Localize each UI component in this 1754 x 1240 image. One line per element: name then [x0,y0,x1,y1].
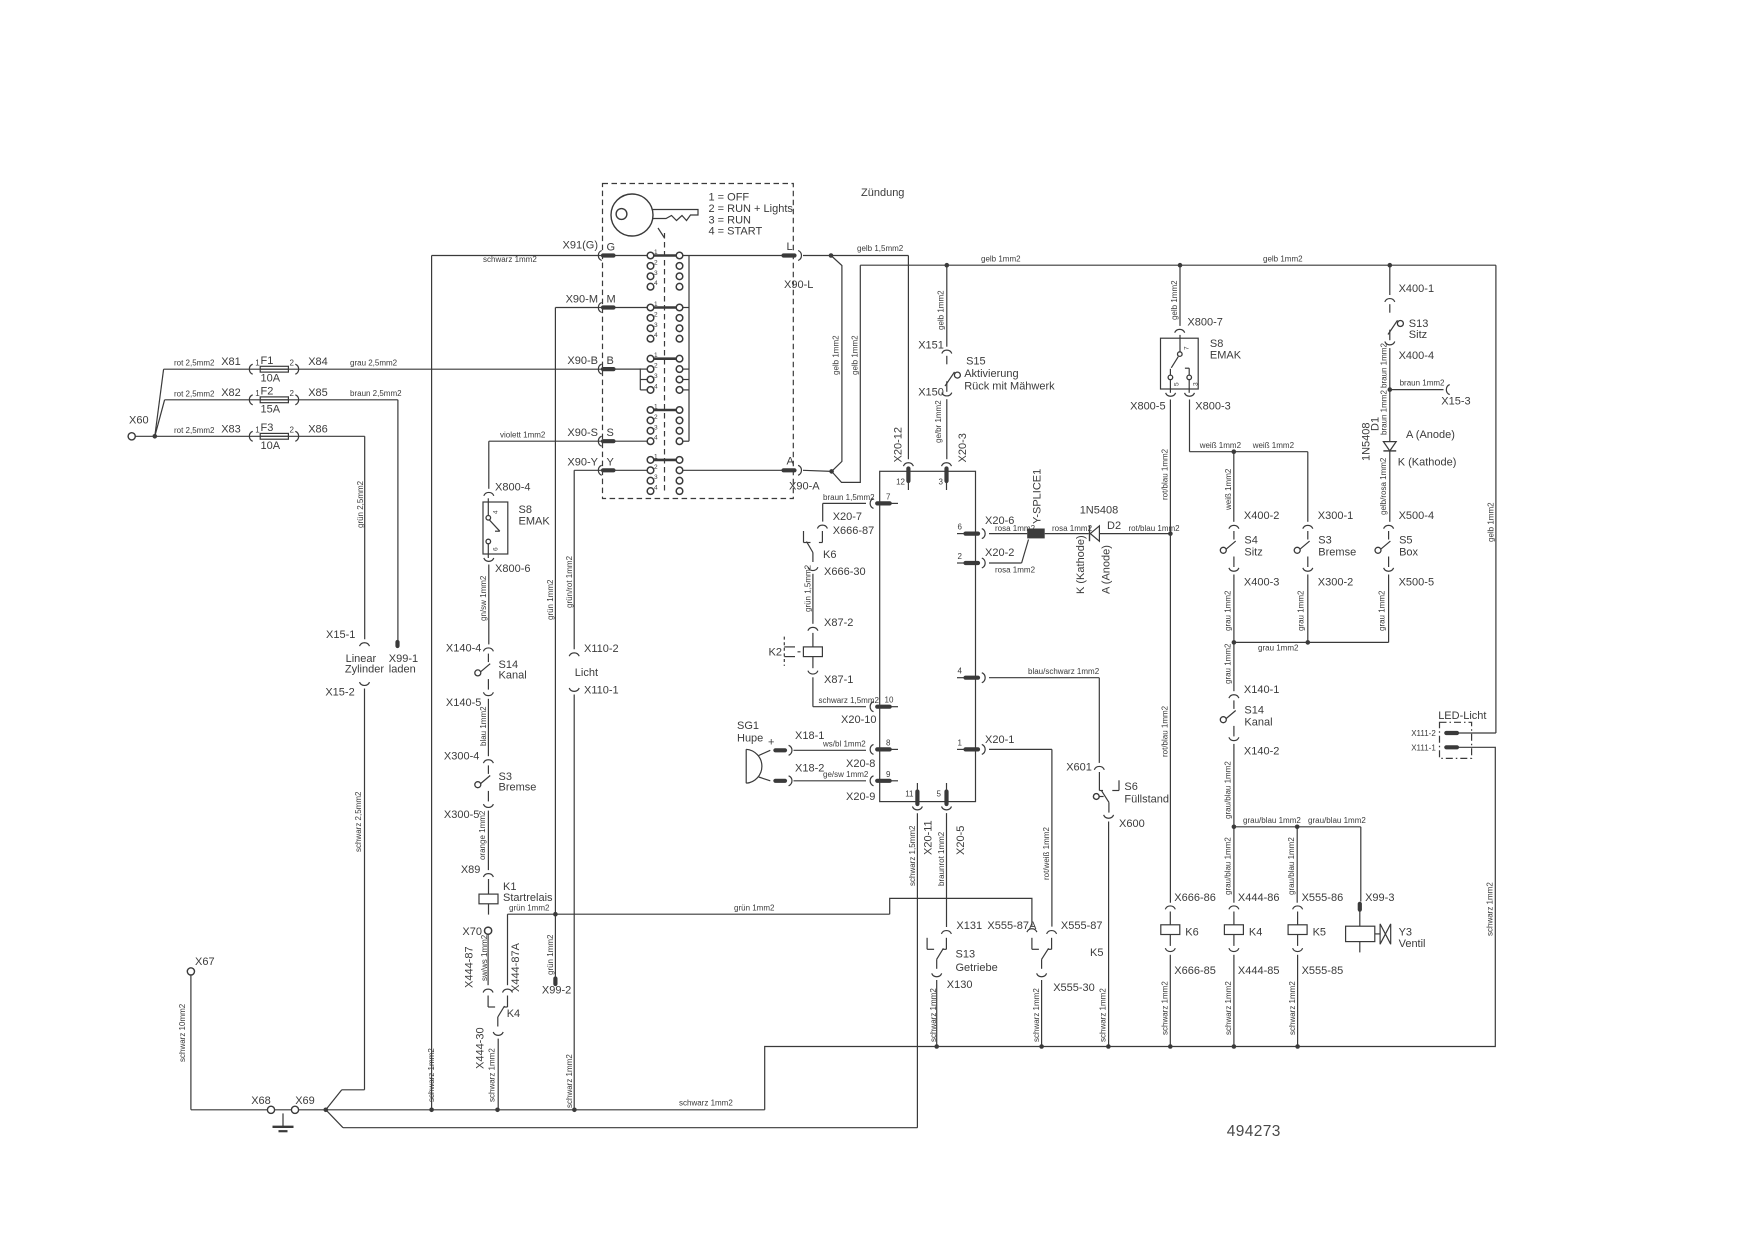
svg-text:K5: K5 [1313,927,1326,939]
svg-text:4: 4 [654,435,658,442]
svg-text:Zylinder: Zylinder [345,664,384,676]
svg-text:4: 4 [654,332,658,339]
svg-text:+: + [768,737,774,749]
svg-text:grau 2,5mm2: grau 2,5mm2 [350,359,398,368]
svg-text:X140-5: X140-5 [446,697,481,709]
svg-text:1N5408: 1N5408 [1080,505,1119,517]
svg-text:X60: X60 [129,415,149,427]
svg-text:A (Anode): A (Anode) [1101,545,1113,594]
svg-text:X20-2: X20-2 [985,547,1014,559]
svg-text:K6: K6 [823,549,836,561]
svg-text:X444-87A: X444-87A [510,942,522,992]
svg-text:grün 1mm2: grün 1mm2 [734,904,775,913]
svg-text:Aktivierung: Aktivierung [964,368,1018,380]
svg-text:10A: 10A [261,440,281,452]
svg-text:Ventil: Ventil [1399,938,1426,950]
svg-text:schwarz 1,5mm2: schwarz 1,5mm2 [819,696,880,705]
svg-text:Getriebe: Getriebe [956,962,998,974]
svg-text:X555-86: X555-86 [1302,892,1344,904]
svg-text:schwarz 1mm2: schwarz 1mm2 [1032,988,1041,1042]
svg-text:violett 1mm2: violett 1mm2 [500,431,546,440]
svg-text:grau/blau 1mm2: grau/blau 1mm2 [1224,837,1233,895]
svg-text:blau/schwarz 1mm2: blau/schwarz 1mm2 [1028,667,1100,676]
svg-text:X18-2: X18-2 [795,763,824,775]
svg-text:Hupe: Hupe [737,733,763,745]
svg-text:L: L [787,241,793,253]
svg-text:grün 1mm2: grün 1mm2 [509,904,550,913]
svg-text:5: 5 [937,790,942,799]
svg-text:braun 1mm2: braun 1mm2 [1379,343,1388,388]
svg-text:K4: K4 [507,1008,520,1020]
svg-text:7: 7 [1183,346,1190,350]
svg-text:S4: S4 [1244,535,1257,547]
svg-text:X110-2: X110-2 [584,643,619,655]
svg-text:Licht: Licht [575,667,598,679]
svg-text:grau 1mm2: grau 1mm2 [1224,643,1233,684]
svg-text:SG1: SG1 [737,720,759,732]
svg-text:4 = START: 4 = START [709,226,763,238]
svg-text:sw/ws 1mm2: sw/ws 1mm2 [480,934,489,981]
svg-text:S6: S6 [1124,781,1137,793]
svg-text:grün 1,5mm2: grün 1,5mm2 [803,564,812,612]
svg-text:ge/sw 1mm2: ge/sw 1mm2 [823,770,869,779]
svg-text:LED-Licht: LED-Licht [1438,710,1486,722]
svg-text:X555-87: X555-87 [1061,920,1103,932]
svg-text:braunrot 1mm2: braunrot 1mm2 [937,831,946,886]
svg-text:schwarz 1mm2: schwarz 1mm2 [679,1099,733,1108]
svg-text:X400-4: X400-4 [1399,350,1434,362]
svg-text:Kanal: Kanal [499,670,527,682]
svg-text:rot/weiß 1mm2: rot/weiß 1mm2 [1042,827,1051,880]
svg-text:ge/br 1mm2: ge/br 1mm2 [934,400,943,443]
svg-text:Rück mit Mähwerk: Rück mit Mähwerk [964,381,1055,393]
svg-text:12: 12 [896,478,905,487]
svg-text:EMAK: EMAK [1210,350,1242,362]
svg-text:Box: Box [1399,547,1418,559]
svg-text:rot 2,5mm2: rot 2,5mm2 [174,426,215,435]
svg-text:G: G [607,242,616,254]
svg-text:orange 1mm2: orange 1mm2 [478,810,487,860]
svg-text:X84: X84 [308,356,328,368]
svg-text:4: 4 [654,280,658,287]
svg-text:X151: X151 [918,340,944,352]
svg-text:X15-2: X15-2 [325,687,354,699]
svg-text:S: S [607,427,614,439]
svg-text:X86: X86 [308,423,328,435]
svg-text:X20-5: X20-5 [955,826,967,855]
svg-text:laden: laden [389,664,416,676]
svg-text:schwarz 1mm2: schwarz 1mm2 [1161,981,1170,1035]
svg-text:gelb 1mm2: gelb 1mm2 [832,335,841,375]
svg-text:schwarz 2,5mm2: schwarz 2,5mm2 [354,791,363,852]
svg-text:X140-4: X140-4 [446,643,481,655]
svg-text:X140-2: X140-2 [1244,746,1279,758]
svg-text:schwarz 1mm2: schwarz 1mm2 [1486,882,1495,936]
svg-text:X666-86: X666-86 [1174,892,1216,904]
svg-text:grau 1mm2: grau 1mm2 [1224,590,1233,631]
svg-text:gelb 1mm2: gelb 1mm2 [1170,280,1179,320]
svg-text:grau 1mm2: grau 1mm2 [1378,590,1387,631]
svg-text:X800-7: X800-7 [1187,317,1222,329]
svg-text:weiß 1mm2: weiß 1mm2 [1199,441,1242,450]
svg-text:K2: K2 [769,647,782,659]
svg-text:Bremse: Bremse [1318,547,1356,559]
svg-text:X90-S: X90-S [567,427,598,439]
svg-text:ws/bl 1mm2: ws/bl 1mm2 [822,740,866,749]
svg-text:X444-87: X444-87 [463,946,475,988]
svg-text:3: 3 [654,474,658,481]
svg-text:rot/blau 1mm2: rot/blau 1mm2 [1129,524,1181,533]
svg-text:3: 3 [654,270,658,277]
svg-text:gn/sw 1mm2: gn/sw 1mm2 [479,575,488,621]
svg-text:X85: X85 [308,387,328,399]
svg-text:X444-86: X444-86 [1238,892,1280,904]
svg-text:F1: F1 [261,355,274,367]
svg-text:X20-7: X20-7 [833,511,862,523]
svg-text:X150: X150 [918,387,944,399]
svg-text:grün 2,5mm2: grün 2,5mm2 [356,480,365,528]
svg-text:schwarz 1mm2: schwarz 1mm2 [1288,981,1297,1035]
svg-text:X90-B: X90-B [567,355,598,367]
svg-text:1: 1 [958,739,963,748]
svg-text:2: 2 [654,464,658,471]
svg-text:X444-85: X444-85 [1238,965,1280,977]
svg-text:schwarz 1mm2: schwarz 1mm2 [565,1054,574,1108]
svg-text:4: 4 [654,485,658,492]
svg-text:X400-1: X400-1 [1399,283,1434,295]
svg-text:Sitz: Sitz [1244,547,1262,559]
svg-text:X555-30: X555-30 [1053,982,1095,994]
svg-text:6: 6 [958,523,963,532]
svg-text:1N5408: 1N5408 [1360,422,1372,461]
svg-text:X69: X69 [295,1095,315,1107]
svg-text:schwarz 1mm2: schwarz 1mm2 [929,988,938,1042]
svg-text:X81: X81 [221,356,241,368]
svg-text:K6: K6 [1185,927,1198,939]
svg-text:X90-M: X90-M [566,294,598,306]
svg-text:6: 6 [493,547,500,551]
svg-text:schwarz 1mm2: schwarz 1mm2 [427,1048,436,1102]
svg-text:grau/blau 1mm2: grau/blau 1mm2 [1243,816,1301,825]
svg-text:X15-3: X15-3 [1441,396,1470,408]
svg-text:X111-1: X111-1 [1411,744,1436,753]
svg-text:rosa 1mm2: rosa 1mm2 [1052,524,1093,533]
svg-text:Sitz: Sitz [1409,329,1427,341]
svg-text:2: 2 [654,311,658,318]
svg-text:Y-SPLICE1: Y-SPLICE1 [1031,469,1043,524]
svg-text:X15-1: X15-1 [326,629,355,641]
svg-text:F2: F2 [261,386,274,398]
svg-text:X99-2: X99-2 [542,985,571,997]
svg-text:S8: S8 [519,504,532,516]
svg-text:3: 3 [939,478,944,487]
svg-text:X130: X130 [947,979,973,991]
svg-text:2: 2 [654,414,658,421]
svg-text:A (Anode): A (Anode) [1406,429,1455,441]
svg-text:3 = RUN: 3 = RUN [709,214,752,226]
svg-text:10: 10 [885,696,894,705]
svg-text:X555-85: X555-85 [1302,965,1344,977]
svg-text:11: 11 [905,790,914,799]
svg-text:5: 5 [1174,382,1181,386]
svg-text:10A: 10A [261,373,281,385]
svg-text:4: 4 [958,667,963,676]
svg-text:X83: X83 [221,423,241,435]
svg-text:X20-1: X20-1 [985,734,1014,746]
svg-text:X444-30: X444-30 [474,1027,486,1069]
svg-text:7: 7 [886,493,891,502]
svg-text:X666-85: X666-85 [1174,965,1216,977]
svg-text:grau 1mm2: grau 1mm2 [1258,644,1299,653]
svg-text:1: 1 [255,359,260,368]
svg-text:X90-A: X90-A [789,481,820,493]
svg-text:X20-9: X20-9 [846,791,875,803]
svg-text:B: B [607,355,614,367]
svg-text:rot/blau 1mm2: rot/blau 1mm2 [1161,705,1170,757]
svg-text:2 = RUN + Lights: 2 = RUN + Lights [709,203,794,215]
svg-text:3: 3 [654,322,658,329]
svg-text:Y3: Y3 [1399,927,1412,939]
svg-text:X800-5: X800-5 [1130,401,1165,413]
svg-text:D2: D2 [1107,520,1121,532]
svg-text:schwarz 1,5mm2: schwarz 1,5mm2 [908,825,917,886]
svg-text:gelb 1mm2: gelb 1mm2 [850,335,859,375]
svg-text:X18-1: X18-1 [795,730,824,742]
svg-text:X20-11: X20-11 [923,820,935,855]
svg-text:X555-87A: X555-87A [987,920,1037,932]
svg-text:2: 2 [654,259,658,266]
svg-text:K5: K5 [1090,947,1103,959]
svg-text:X68: X68 [251,1095,271,1107]
svg-text:9: 9 [886,770,891,779]
svg-text:X140-1: X140-1 [1244,684,1279,696]
svg-text:gelb 1mm2: gelb 1mm2 [1486,502,1495,542]
svg-text:X89: X89 [461,864,481,876]
svg-text:1: 1 [255,426,260,435]
svg-text:K (Kathode): K (Kathode) [1075,535,1087,594]
svg-text:X90-L: X90-L [784,279,813,291]
svg-text:X666-87: X666-87 [833,525,875,537]
svg-text:braun 1mm2: braun 1mm2 [1400,379,1445,388]
svg-text:X500-4: X500-4 [1399,510,1434,522]
svg-text:S8: S8 [1210,338,1223,350]
svg-text:Kanal: Kanal [1244,717,1272,729]
svg-text:X82: X82 [221,387,241,399]
svg-text:X110-1: X110-1 [584,685,619,697]
svg-text:schwarz 1mm2: schwarz 1mm2 [1224,981,1233,1035]
svg-text:15A: 15A [261,403,281,415]
svg-text:3: 3 [654,424,658,431]
svg-text:gelb 1mm2: gelb 1mm2 [1263,255,1303,264]
svg-text:X111-2: X111-2 [1411,729,1436,738]
svg-text:4: 4 [654,383,658,390]
svg-text:X666-30: X666-30 [824,566,866,578]
svg-text:X20-3: X20-3 [957,433,969,462]
svg-text:grün/rot 1mm2: grün/rot 1mm2 [565,555,574,608]
svg-text:grau 1mm2: grau 1mm2 [1297,590,1306,631]
svg-text:X20-12: X20-12 [893,427,905,462]
svg-text:X300-4: X300-4 [444,751,479,763]
svg-text:X800-3: X800-3 [1195,401,1230,413]
svg-text:S3: S3 [1318,535,1331,547]
svg-text:X67: X67 [195,956,215,968]
svg-text:gelb 1mm2: gelb 1mm2 [936,290,945,330]
svg-text:M: M [607,294,616,306]
svg-text:rot 2,5mm2: rot 2,5mm2 [174,359,215,368]
svg-text:rosa 1mm2: rosa 1mm2 [995,566,1036,575]
svg-text:X800-6: X800-6 [495,563,530,575]
svg-text:2: 2 [290,359,295,368]
svg-text:Bremse: Bremse [499,782,537,794]
svg-text:weiß 1mm2: weiß 1mm2 [1224,468,1233,511]
svg-text:gelb/rosa 1mm2: gelb/rosa 1mm2 [1379,457,1388,515]
svg-text:X300-1: X300-1 [1318,510,1353,522]
svg-text:K4: K4 [1249,927,1262,939]
svg-text:X87-2: X87-2 [824,617,853,629]
svg-text:X300-2: X300-2 [1318,577,1353,589]
svg-text:grün 1mm2: grün 1mm2 [546,579,555,620]
svg-text:S5: S5 [1399,535,1412,547]
svg-text:gelb 1mm2: gelb 1mm2 [981,255,1021,264]
svg-text:X90-Y: X90-Y [567,457,598,469]
svg-text:X20-8: X20-8 [846,758,875,770]
svg-text:schwarz 10mm2: schwarz 10mm2 [178,1003,187,1062]
svg-text:Füllstand: Füllstand [1124,794,1169,806]
svg-text:X800-4: X800-4 [495,482,530,494]
svg-text:X400-2: X400-2 [1244,510,1279,522]
svg-text:blau 1mm2: blau 1mm2 [479,706,488,746]
svg-text:X20-10: X20-10 [841,714,876,726]
svg-text:2: 2 [290,426,295,435]
svg-text:X400-3: X400-3 [1244,577,1279,589]
svg-text:8: 8 [886,739,891,748]
svg-text:X600: X600 [1119,818,1145,830]
svg-text:grau/blau 1mm2: grau/blau 1mm2 [1308,816,1366,825]
svg-text:2: 2 [958,552,963,561]
svg-text:494273: 494273 [1227,1123,1281,1140]
svg-text:gelb 1,5mm2: gelb 1,5mm2 [857,244,904,253]
svg-text:braun 1,5mm2: braun 1,5mm2 [823,493,875,502]
svg-text:weiß 1mm2: weiß 1mm2 [1252,441,1295,450]
svg-text:rot 2,5mm2: rot 2,5mm2 [174,389,215,398]
svg-text:schwarz 1mm2: schwarz 1mm2 [487,1048,496,1102]
svg-text:3: 3 [1192,382,1199,386]
svg-text:grau/blau 1mm2: grau/blau 1mm2 [1287,837,1296,895]
svg-text:braun 2,5mm2: braun 2,5mm2 [350,389,402,398]
svg-text:A: A [787,456,795,468]
svg-text:grau/blau 1mm2: grau/blau 1mm2 [1224,761,1233,819]
svg-text:schwarz 1mm2: schwarz 1mm2 [483,255,537,264]
svg-text:X601: X601 [1066,762,1092,774]
svg-text:X500-5: X500-5 [1399,577,1434,589]
svg-text:2: 2 [290,389,295,398]
svg-text:EMAK: EMAK [519,516,551,528]
svg-text:1: 1 [255,389,260,398]
svg-text:K (Kathode): K (Kathode) [1398,457,1457,469]
svg-text:4: 4 [493,510,500,514]
svg-text:rot/blau 1mm2: rot/blau 1mm2 [1161,448,1170,500]
svg-text:grün 1mm2: grün 1mm2 [546,934,555,975]
svg-text:S14: S14 [1244,705,1264,717]
svg-text:X87-1: X87-1 [824,674,853,686]
svg-text:S15: S15 [966,356,986,368]
svg-text:X300-5: X300-5 [444,809,479,821]
svg-text:F3: F3 [261,422,274,434]
svg-text:Y: Y [607,457,615,469]
svg-text:1 = OFF: 1 = OFF [709,192,750,204]
svg-text:schwarz 1mm2: schwarz 1mm2 [1099,988,1108,1042]
svg-text:X99-3: X99-3 [1365,892,1394,904]
svg-text:Zündung: Zündung [861,187,904,199]
svg-text:Startrelais: Startrelais [503,892,553,904]
svg-text:X131: X131 [956,920,982,932]
svg-text:X91(G): X91(G) [563,240,598,252]
svg-text:3: 3 [654,373,658,380]
svg-text:2: 2 [654,363,658,370]
svg-text:S13: S13 [956,949,976,961]
